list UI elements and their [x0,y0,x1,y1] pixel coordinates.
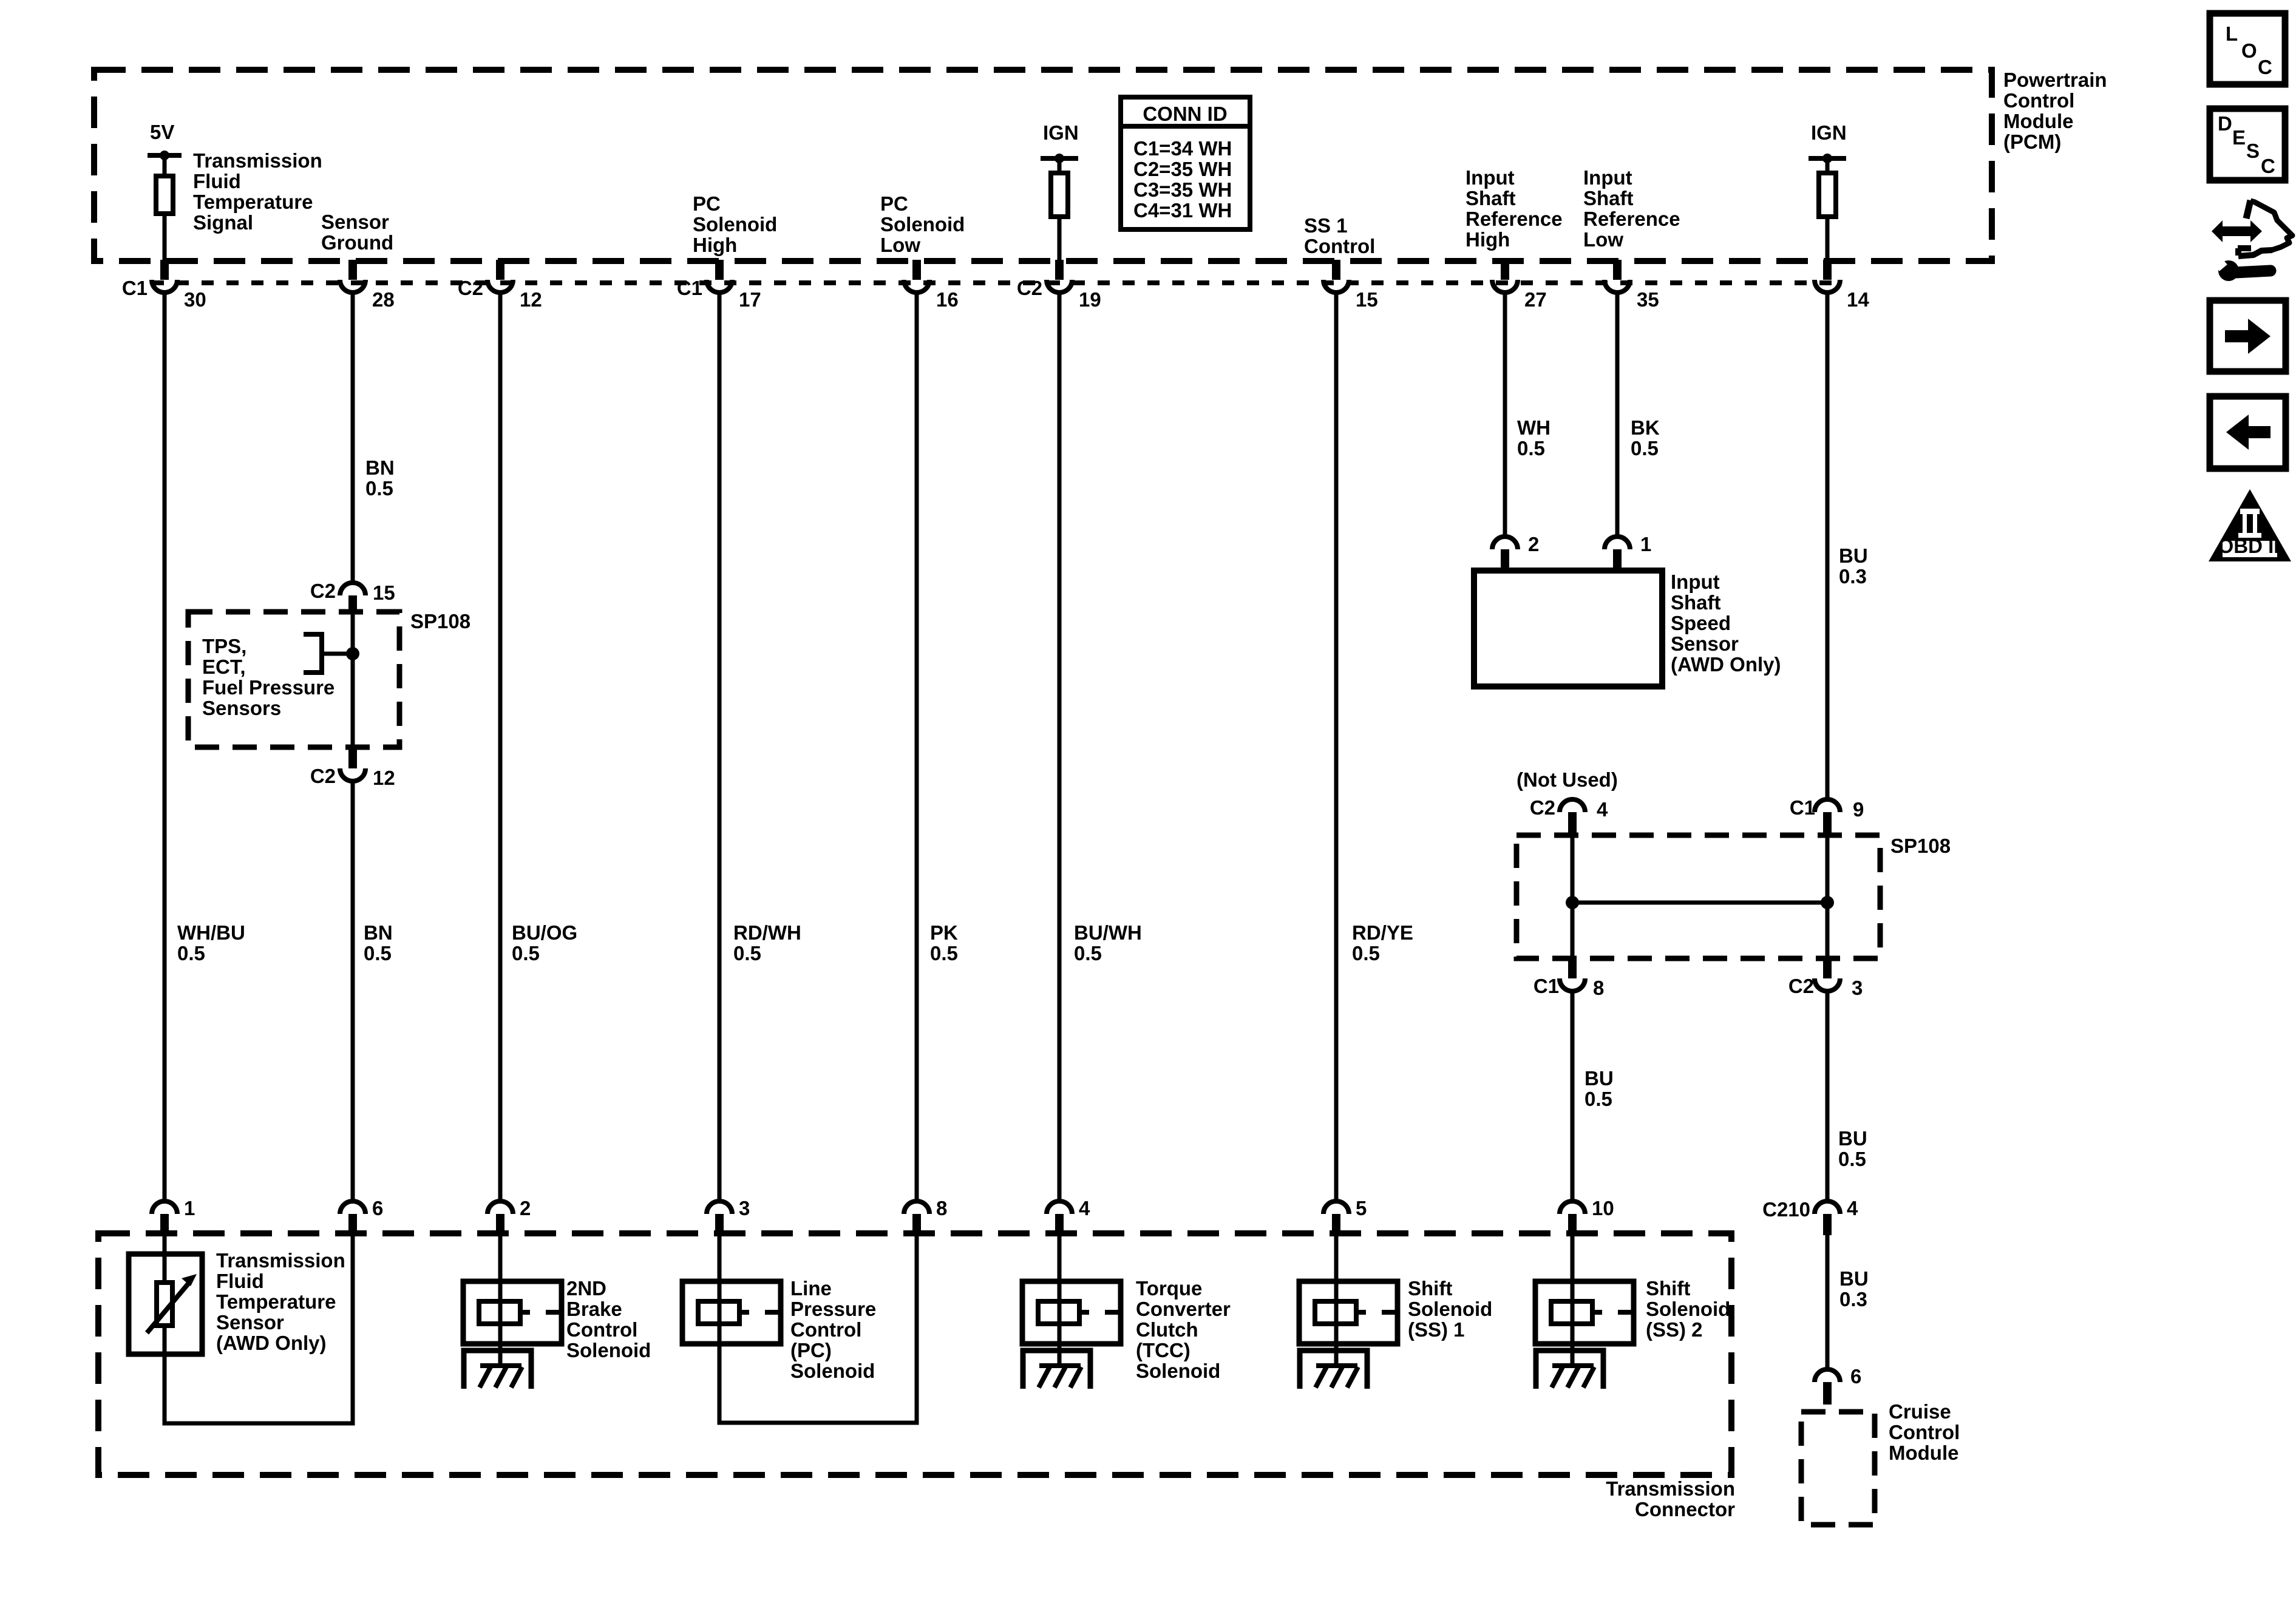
svg-text:Connector: Connector [1635,1498,1735,1520]
solenoid Line Pressure Control (PC) Solenoid [682,1281,781,1344]
svg-text:2ND: 2ND [566,1277,606,1300]
wire BN 0.5 (C2-12 to pin 6) [351,782,355,1201]
svg-text:4: 4 [1597,798,1608,821]
svg-text:16: 16 [936,288,959,311]
connector pin 6 (transmission connector) [340,1197,383,1235]
svg-text:Temperature: Temperature [193,191,313,213]
svg-text:Sensors: Sensors [202,697,281,719]
connector pin C2-12 (PCM, top row) [458,260,542,311]
svg-text:TPS,: TPS, [202,635,246,657]
svg-text:RD/YE: RD/YE [1352,921,1413,944]
svg-text:Fluid: Fluid [193,170,241,192]
svg-text:C2: C2 [310,580,336,602]
connector pin 15 (PCM, top row) [1323,260,1378,311]
svg-text:E: E [2232,126,2246,149]
ground under 2ND Brake solenoid [464,1351,531,1389]
svg-text:6: 6 [372,1197,383,1219]
wire inside SP108 left [351,613,355,747]
svg-text:Sensor: Sensor [321,211,389,233]
svg-text:Shaft: Shaft [1671,591,1721,614]
svg-text:(PC): (PC) [790,1339,832,1361]
svg-text:Input: Input [1583,166,1632,189]
connector pin C1-9 [1790,796,1864,836]
svg-text:0.5: 0.5 [1631,437,1659,459]
label WH/BU 0.5 [177,921,245,964]
connector pin 35 (PCM, top row) [1605,260,1659,311]
svg-text:High: High [1466,228,1510,251]
svg-text:Clutch: Clutch [1136,1318,1198,1341]
svg-text:SP108: SP108 [1890,835,1951,857]
connector pin 10 (transmission connector) [1560,1197,1614,1235]
svg-text:0.5: 0.5 [177,942,205,964]
svg-text:Solenoid: Solenoid [880,213,965,236]
wire WH 0.5 (27 to ISS pin 2) [1503,293,1507,537]
svg-text:L: L [2226,22,2238,45]
wire pin 1 into box [163,1235,167,1254]
svg-text:(TCC): (TCC) [1136,1339,1190,1361]
svg-text:OBD II: OBD II [2218,535,2280,557]
label PC Solenoid High [693,192,777,256]
label Transmission Connector [1606,1477,1735,1520]
svg-text:ECT,: ECT, [202,656,246,678]
label BK 0.5 [1631,416,1660,459]
svg-text:12: 12 [520,288,542,311]
svg-text:BU/WH: BU/WH [1074,921,1142,944]
label BU 0.5 right [1838,1127,1867,1170]
connector pin C210-4 [1762,1197,1858,1235]
connector pin C2-12 [310,747,395,789]
svg-text:Control: Control [790,1318,861,1341]
svg-text:35: 35 [1637,288,1659,311]
connector pin C2-19 (PCM, top row) [1017,260,1101,311]
svg-text:Low: Low [880,234,920,256]
connector pin 1 (ISS sensor) [1605,533,1651,573]
svg-text:0.3: 0.3 [1839,1288,1867,1310]
svg-text:Fuel Pressure: Fuel Pressure [202,676,335,699]
svg-text:8: 8 [1593,977,1604,999]
wire BU 0.5 (C1-8 to pin 10) [1571,992,1575,1201]
svg-text:Control: Control [566,1318,637,1341]
connector pin 3 (transmission connector) [707,1197,750,1235]
label RD/YE 0.5 [1352,921,1413,964]
svg-text:Sensor: Sensor [216,1311,284,1334]
wire WH/BU 0.5 (C1-30 to pin 1) [163,293,167,1201]
svg-text:0.5: 0.5 [1074,942,1102,964]
svg-text:C1: C1 [1533,975,1559,997]
connector pin 1 (transmission connector) [152,1197,195,1235]
svg-text:Cruise: Cruise [1889,1400,1951,1423]
wire pin 4 into box [1058,1235,1062,1281]
svg-text:D: D [2218,112,2232,135]
svg-text:PK: PK [930,921,958,944]
connector row dotted line [152,280,1843,285]
svg-text:S: S [2246,140,2260,162]
label SS 1 Control [1304,214,1375,257]
wire C210-4 to cruise pin 6 [1826,1235,1830,1369]
svg-text:Solenoid: Solenoid [1136,1360,1220,1382]
ground under SS1 solenoid [1300,1351,1367,1389]
solenoid 2ND Brake Control Solenoid [463,1281,562,1366]
ground under TCC solenoid [1023,1351,1090,1389]
svg-text:Powertrain: Powertrain [2003,69,2107,91]
wire pin 3 into box [718,1235,722,1281]
component U1 Input Shaft Speed Sensor box [1474,571,1662,686]
connector pin 2 (transmission connector) [487,1197,531,1235]
wire TFT sensor return loop to pin 6 [165,1235,353,1423]
svg-text:Temperature: Temperature [216,1290,336,1313]
svg-text:0.5: 0.5 [512,942,540,964]
power symbol 5V with pull-up resistor [148,121,182,260]
svg-text:IGN: IGN [1043,121,1079,144]
svg-text:Shift: Shift [1646,1277,1690,1300]
svg-text:0.3: 0.3 [1839,565,1867,588]
label Shift Solenoid (SS) 1 [1408,1277,1492,1341]
svg-text:IGN: IGN [1811,121,1847,144]
svg-text:1: 1 [184,1197,195,1219]
svg-text:14: 14 [1847,288,1869,311]
svg-text:C1: C1 [677,277,702,299]
svg-text:SS 1: SS 1 [1304,214,1348,237]
svg-text:C2: C2 [1530,796,1555,819]
wire BK 0.5 (35 to ISS pin 1) [1615,293,1620,537]
svg-text:12: 12 [373,767,395,789]
svg-text:BU/OG: BU/OG [512,921,577,944]
svg-text:Control: Control [1889,1421,1960,1443]
label Torque Converter Clutch (TCC) Solenoid [1136,1277,1231,1382]
label Cruise Control Module [1889,1400,1960,1464]
svg-text:Shaft: Shaft [1466,187,1516,209]
svg-text:High: High [693,234,737,256]
svg-text:Module: Module [2003,110,2073,132]
connector pin C1-30 (PCM, top row) [122,260,206,311]
connector pin 27 (PCM, top row) [1492,260,1547,311]
svg-text:Fluid: Fluid [216,1270,264,1292]
svg-text:Input: Input [1466,166,1515,189]
svg-text:3: 3 [1852,977,1863,999]
svg-text:Sensor: Sensor [1671,632,1739,655]
svg-text:(AWD Only): (AWD Only) [216,1332,326,1354]
wire pin 5 into box [1334,1235,1339,1281]
label Sensor Ground [321,211,393,254]
svg-text:Line: Line [790,1277,832,1300]
svg-text:(SS) 2: (SS) 2 [1646,1318,1703,1341]
connector pin 16 (PCM, top row) [904,260,959,311]
wire BU/WH 0.5 (C2-19 to pin 4) [1058,293,1062,1201]
svg-text:Transmission: Transmission [193,149,322,172]
svg-text:27: 27 [1524,288,1547,311]
svg-text:4: 4 [1847,1197,1858,1219]
svg-text:1: 1 [1640,533,1651,555]
svg-text:C2: C2 [458,277,483,299]
svg-text:Solenoid: Solenoid [790,1360,875,1382]
svg-text:C: C [2258,56,2272,78]
svg-text:Converter: Converter [1136,1298,1231,1320]
svg-text:(PCM): (PCM) [2003,130,2061,153]
svg-text:30: 30 [184,288,206,311]
wire BN 0.5 (pin 28 to C2-15) [351,293,355,582]
svg-text:Reference: Reference [1583,208,1680,230]
icon back arrow box [2210,396,2286,469]
connector pin C2-4 (not used) [1530,796,1608,836]
thermistor element (variable resistor) [147,1274,197,1333]
connector pin 28 (PCM, top row) [340,260,395,311]
svg-text:Control: Control [2003,89,2074,112]
svg-text:WH: WH [1517,416,1550,439]
label Transmission Fluid Temperature Signal [193,149,322,234]
svg-text:10: 10 [1592,1197,1614,1219]
wire splice bar SP108 [1572,901,1827,905]
label 2ND Brake Control Solenoid [566,1277,651,1361]
svg-text:C3=35 WH: C3=35 WH [1133,178,1232,201]
svg-text:CONN ID: CONN ID [1143,103,1227,125]
wire RD/YE 0.5 (15 to pin 5) [1334,293,1339,1201]
label BN 0.5 lower [364,921,393,964]
label BU/OG 0.5 [512,921,577,964]
svg-text:Solenoid: Solenoid [566,1339,651,1361]
svg-text:Control: Control [1304,235,1375,257]
power symbol IGN feed at C1-14 with resistor [1809,121,1847,260]
svg-text:Torque: Torque [1136,1277,1202,1300]
connector pin 14 (PCM, top row) [1815,260,1869,311]
label (Not Used) [1517,768,1618,791]
label BN 0.5 upper [365,456,395,500]
svg-text:0.5: 0.5 [1517,437,1545,459]
svg-text:C2: C2 [310,765,336,787]
wire BU/OG 0.5 (C2-12 to pin 2) [498,293,503,1201]
svg-text:C4=31 WH: C4=31 WH [1133,199,1232,222]
svg-text:0.5: 0.5 [365,477,393,500]
wire PK 0.5 (16 to pin 8) [915,293,919,1201]
label BU 0.3 lower [1839,1267,1869,1310]
bracket to TPS/ECT sensors [304,634,353,673]
svg-text:Solenoid: Solenoid [1646,1298,1730,1320]
svg-text:Transmission: Transmission [216,1249,345,1272]
power symbol IGN feed at C2-19 with resistor [1041,121,1079,260]
wire BU 0.3 (14 to C1-9) [1826,293,1830,801]
junction splice right [1821,896,1834,909]
connector pin C2-15 [310,580,395,613]
wire pin 2 into box [498,1235,503,1281]
svg-text:Ground: Ground [321,231,393,254]
connector pin 5 (transmission connector) [1323,1197,1367,1235]
svg-text:Solenoid: Solenoid [693,213,777,236]
svg-text:(SS) 1: (SS) 1 [1408,1318,1465,1341]
solenoid Shift Solenoid (SS) 1 [1299,1281,1398,1366]
label TPS, ECT, Fuel Pressure Sensors [202,635,335,719]
label Input Shaft Speed Sensor (AWD Only) [1671,571,1781,676]
svg-text:C1: C1 [1790,796,1815,819]
svg-text:BN: BN [364,921,393,944]
connector pin 4 (transmission connector) [1047,1197,1090,1235]
svg-text:PC: PC [693,192,721,215]
svg-text:Module: Module [1889,1442,1958,1464]
svg-text:BK: BK [1631,416,1660,439]
component RT1 Transmission Fluid Temperature Sensor box [129,1254,202,1354]
svg-text:5V: 5V [150,121,174,143]
svg-text:C210: C210 [1762,1198,1810,1221]
svg-text:Signal: Signal [193,211,253,234]
label SP108 right [1890,835,1951,857]
wire inside SP108 right (right leg) [1826,836,1830,958]
label Transmission Fluid Temperature Sensor (AWD Only) [216,1249,345,1354]
label WH 0.5 [1517,416,1550,459]
svg-text:3: 3 [739,1197,750,1219]
splice box SP108 left, dashed [188,612,399,747]
svg-text:Pressure: Pressure [790,1298,876,1320]
svg-text:C2: C2 [1788,975,1814,997]
svg-text:C1=34 WH: C1=34 WH [1133,137,1232,160]
svg-text:0.5: 0.5 [1838,1148,1866,1170]
svg-text:4: 4 [1079,1197,1090,1219]
label Shift Solenoid (SS) 2 [1646,1277,1730,1341]
wire BU 0.5 (C2-3 to C210-4) [1826,992,1830,1201]
svg-text:0.5: 0.5 [364,942,392,964]
wire RD/WH 0.5 (C1-17 to pin 3) [718,293,722,1201]
svg-text:PC: PC [880,192,908,215]
label BU 0.5 left [1584,1067,1614,1110]
junction splice SP108 left [346,647,359,660]
svg-text:19: 19 [1079,288,1101,311]
svg-text:(AWD Only): (AWD Only) [1671,653,1781,676]
wire inside SP108 right (left leg) [1571,836,1575,958]
svg-text:BU: BU [1838,1127,1867,1150]
svg-text:2: 2 [1528,533,1539,555]
svg-text:WH/BU: WH/BU [177,921,245,944]
svg-text:5: 5 [1356,1197,1367,1219]
solenoid Shift Solenoid (SS) 2 [1535,1281,1634,1366]
label Powertrain Control Module (PCM) [2003,69,2107,153]
svg-text:Input: Input [1671,571,1720,593]
icon DESC box [2210,109,2285,180]
label PC Solenoid Low [880,192,965,256]
svg-text:8: 8 [936,1197,947,1219]
label PK 0.5 [930,921,958,964]
svg-text:BU: BU [1839,544,1868,567]
icon adjust/repair (double arrow, part outline, wrench) [2212,200,2292,281]
connector pin 6 (cruise control module) [1815,1365,1861,1405]
splice box SP108 right, dashed [1517,835,1880,958]
ground under SS2 solenoid [1536,1351,1603,1389]
svg-text:RD/WH: RD/WH [733,921,801,944]
module box Powertrain Control Module (PCM), dashed [94,70,1992,261]
connector pin 8 (transmission connector) [904,1197,947,1235]
svg-text:Transmission: Transmission [1606,1477,1735,1500]
svg-text:BN: BN [365,456,395,479]
wire through TFT sensor [163,1254,167,1354]
connector pin 2 (ISS sensor) [1492,533,1539,573]
svg-text:0.5: 0.5 [1584,1088,1612,1110]
svg-text:Speed: Speed [1671,612,1731,634]
label RD/WH 0.5 [733,921,801,964]
svg-text:C2: C2 [1017,277,1042,299]
svg-text:Solenoid: Solenoid [1408,1298,1492,1320]
label Input Shaft Reference High [1466,166,1563,251]
svg-text:15: 15 [373,581,395,604]
svg-text:C2=35 WH: C2=35 WH [1133,158,1232,180]
connector box Transmission Connector, dashed [98,1233,1731,1475]
svg-text:SP108: SP108 [410,610,470,632]
svg-text:C: C [2261,155,2275,177]
svg-text:BU: BU [1839,1267,1869,1290]
wire PC solenoid return loop to pin 8 [719,1235,917,1423]
icon forward arrow box [2210,300,2286,371]
svg-text:28: 28 [372,288,395,311]
table CONN ID [1121,97,1250,229]
svg-text:15: 15 [1356,288,1378,311]
svg-text:0.5: 0.5 [1352,942,1380,964]
svg-text:C1: C1 [122,277,148,299]
connector pin C2-3 [1788,958,1863,999]
svg-text:6: 6 [1850,1365,1861,1388]
svg-text:Reference: Reference [1466,208,1563,230]
label SP108 left [410,610,470,632]
wire pin 10 into box [1571,1235,1575,1281]
icon LOC box [2210,13,2285,84]
svg-text:0.5: 0.5 [733,942,761,964]
svg-text:O: O [2241,39,2257,62]
label BU/WH 0.5 [1074,921,1142,964]
svg-text:17: 17 [739,288,761,311]
module box Cruise Control Module, dashed [1801,1412,1875,1525]
svg-text:Shift: Shift [1408,1277,1452,1300]
label Input Shaft Reference Low [1583,166,1680,251]
solenoid Torque Converter Clutch (TCC) Solenoid [1022,1281,1121,1366]
svg-text:BU: BU [1584,1067,1614,1090]
svg-text:Low: Low [1583,228,1623,251]
connector pin C1-17 (PCM, top row) [677,260,761,311]
label Line Pressure Control (PC) Solenoid [790,1277,876,1382]
junction splice left [1566,896,1579,909]
svg-text:9: 9 [1853,798,1864,821]
svg-text:Shaft: Shaft [1583,187,1634,209]
label BU 0.3 upper [1839,544,1868,588]
svg-text:2: 2 [520,1197,531,1219]
svg-text:Brake: Brake [566,1298,622,1320]
connector pin C1-8 [1533,958,1605,999]
svg-text:0.5: 0.5 [930,942,958,964]
svg-text:(Not Used): (Not Used) [1517,768,1618,791]
icon OBD II triangle [2209,489,2291,561]
